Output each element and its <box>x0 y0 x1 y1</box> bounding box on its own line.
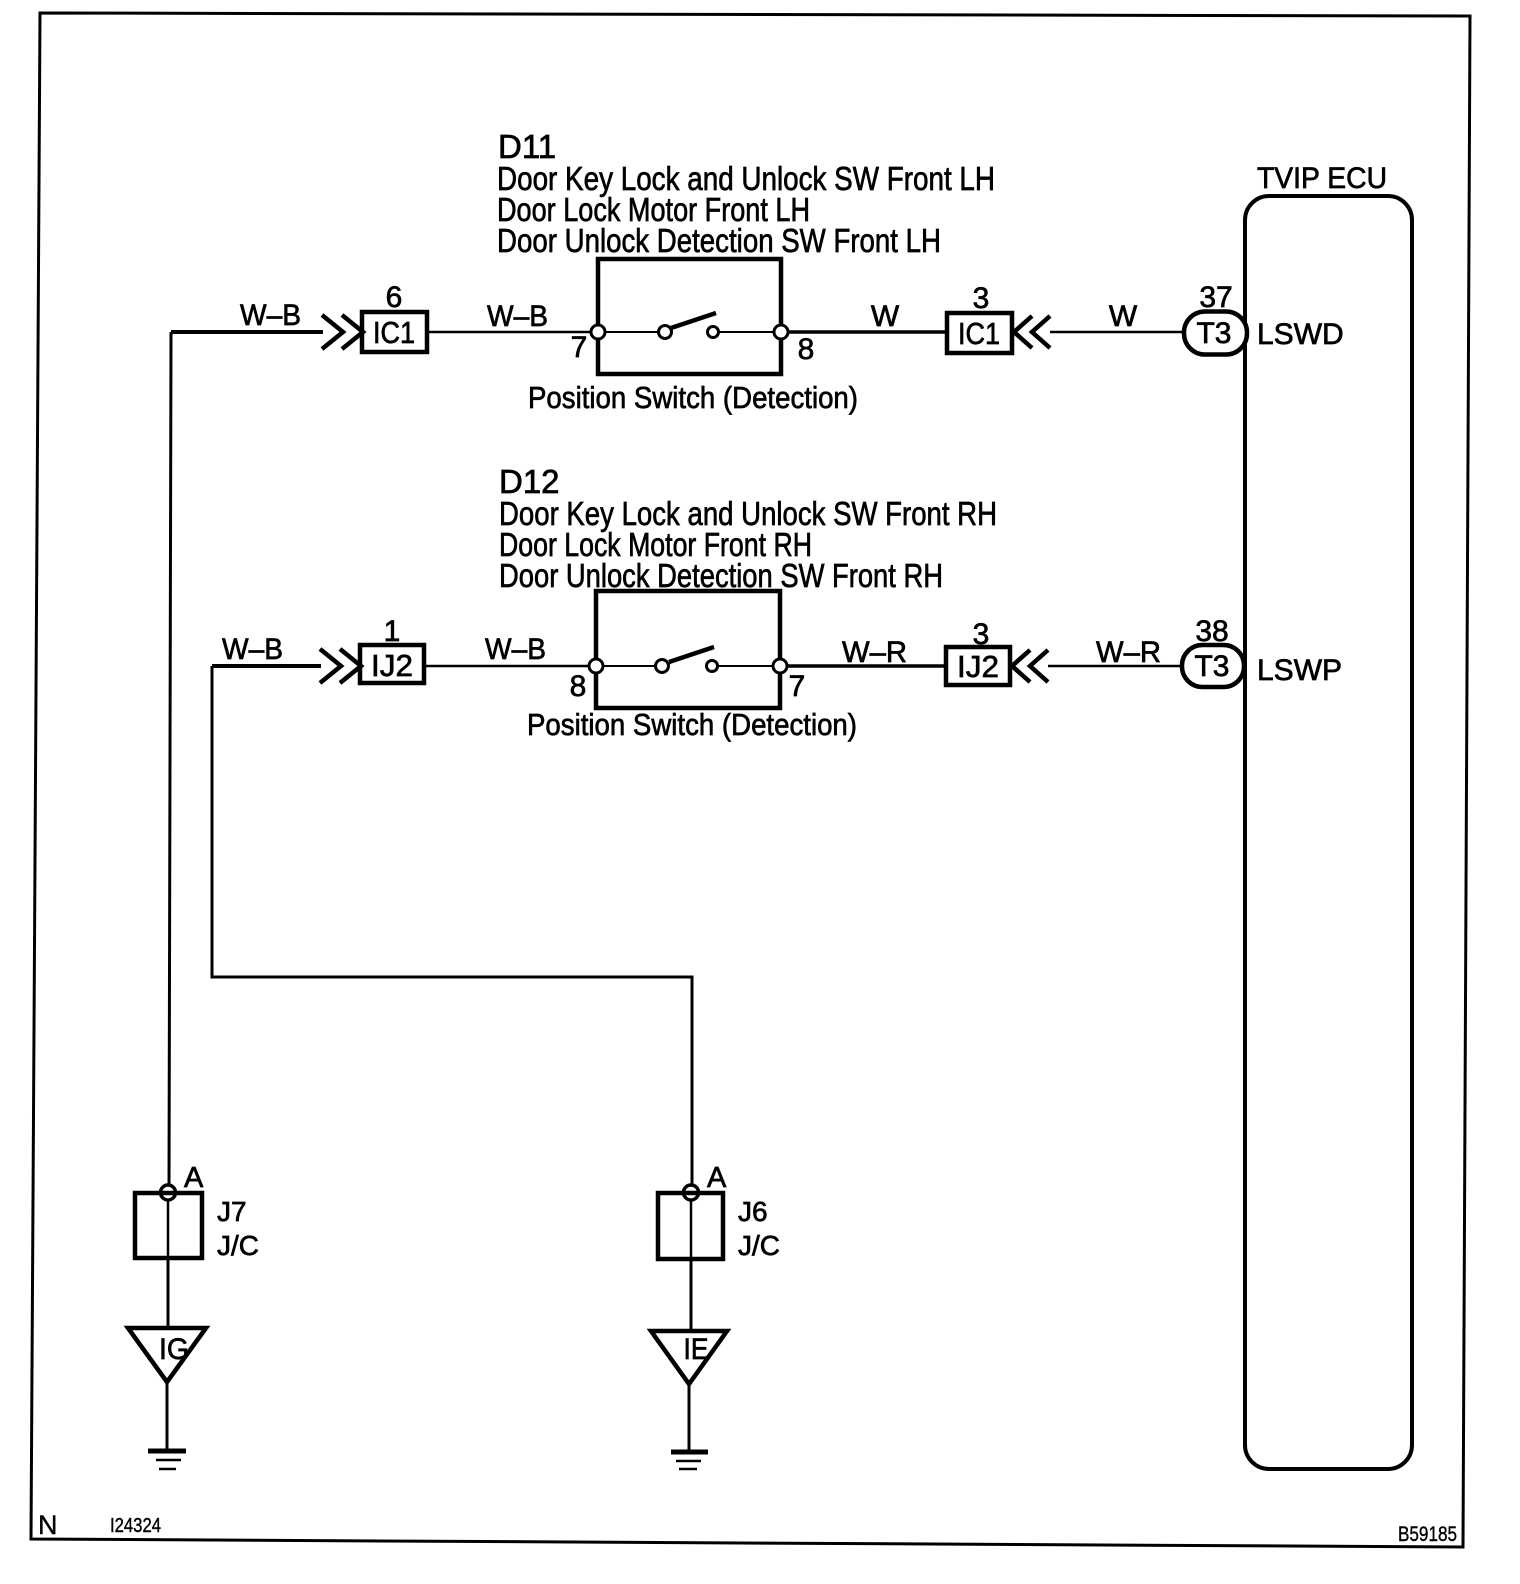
switch contact right D11 <box>708 327 719 338</box>
svg-text:8: 8 <box>570 670 587 703</box>
node A J7 <box>161 1185 176 1200</box>
svg-text:IC1: IC1 <box>958 316 1000 351</box>
connector IJ2 row 2 left <box>360 645 424 683</box>
wire W-R to T3 row 2 <box>1048 665 1184 668</box>
svg-text:IJ2: IJ2 <box>371 648 413 683</box>
ground symbol IE <box>671 1452 708 1469</box>
svg-text:T3: T3 <box>1194 650 1229 683</box>
svg-text:T3: T3 <box>1196 317 1231 350</box>
wire W-R row 2 <box>787 664 947 668</box>
svg-text:W: W <box>1109 300 1138 333</box>
wire W-B row 1 left <box>171 330 323 334</box>
svg-text:Door Unlock Detection SW Front: Door Unlock Detection SW Front RH <box>499 557 943 594</box>
svg-text:37: 37 <box>1199 281 1232 314</box>
svg-text:W–B: W–B <box>222 633 283 666</box>
switch D11 box <box>598 259 781 374</box>
label D12 block <box>499 463 997 594</box>
connector arrow into IC1 row 1 <box>322 315 363 349</box>
label J7 J/C <box>217 1196 259 1261</box>
connector arrow from T3 row 1 <box>1014 316 1050 348</box>
svg-text:W: W <box>871 300 900 333</box>
connector IJ2 row 2 right <box>946 647 1010 685</box>
svg-text:J7: J7 <box>217 1196 247 1227</box>
switch lever D11 <box>671 313 716 328</box>
svg-text:Position Switch (Detection): Position Switch (Detection) <box>528 380 858 415</box>
svg-text:I24324: I24324 <box>110 1515 161 1537</box>
connector IC1 row 1 right <box>947 313 1012 353</box>
ground triangle IG <box>128 1328 206 1382</box>
switch D12 box <box>596 591 780 708</box>
svg-text:Position Switch (Detection): Position Switch (Detection) <box>527 707 857 742</box>
svg-text:A: A <box>707 1162 727 1194</box>
wire IG to ground <box>166 1382 169 1450</box>
node A J6 <box>684 1185 699 1200</box>
svg-text:Door Unlock Detection SW Front: Door Unlock Detection SW Front LH <box>497 222 941 259</box>
label J6 J/C <box>738 1196 780 1261</box>
wire node8 to contact D12 <box>596 665 656 667</box>
wire W-B vertical to J7 <box>169 332 171 1186</box>
svg-text:LSWP: LSWP <box>1257 654 1342 687</box>
svg-text:7: 7 <box>789 670 806 703</box>
svg-text:J/C: J/C <box>217 1230 259 1261</box>
ECU box TVIP <box>1245 196 1412 1469</box>
wire contact to node8 D11 <box>719 331 781 333</box>
wire W-B vertical and horizontal to J6 <box>212 666 692 1186</box>
node pin 7 D12 <box>773 659 787 673</box>
svg-text:J/C: J/C <box>738 1230 780 1261</box>
switch lever D12 <box>669 647 714 662</box>
svg-text:W–B: W–B <box>240 299 301 332</box>
wire J7 to IG <box>167 1258 170 1328</box>
switch contact left D11 <box>659 326 672 339</box>
svg-text:W–R: W–R <box>1096 636 1161 669</box>
switch contact left D12 <box>656 660 669 673</box>
label D11 block <box>497 128 995 259</box>
connector arrow into IJ2 row 2 <box>320 649 361 683</box>
wire W row 1 <box>788 330 948 334</box>
node pin 8 D11 <box>774 325 788 339</box>
junction connector J7 <box>135 1193 202 1258</box>
wire J6 to IE <box>690 1259 693 1331</box>
svg-text:3: 3 <box>973 282 990 315</box>
svg-text:B59185: B59185 <box>1398 1523 1457 1546</box>
svg-text:J6: J6 <box>738 1196 768 1227</box>
connector arrow from T3 row 2 <box>1012 650 1048 682</box>
svg-text:IG: IG <box>159 1333 189 1366</box>
svg-text:W–B: W–B <box>487 300 548 333</box>
terminal T3 LSWD <box>1184 312 1247 355</box>
wire W-B row 2 middle <box>424 665 597 668</box>
switch contact right D12 <box>707 661 718 672</box>
wire node7 to contact D11 <box>598 331 659 333</box>
ground symbol IG <box>148 1451 186 1469</box>
svg-text:7: 7 <box>571 331 588 364</box>
svg-text:IJ2: IJ2 <box>957 649 999 684</box>
ground triangle IE <box>651 1331 727 1384</box>
svg-text:LSWD: LSWD <box>1257 318 1344 351</box>
svg-text:IC1: IC1 <box>373 315 415 350</box>
junction connector J6 <box>658 1193 723 1259</box>
svg-text:A: A <box>184 1162 204 1194</box>
svg-text:N: N <box>38 1510 58 1540</box>
svg-text:IE: IE <box>684 1333 709 1366</box>
wire IE to ground <box>688 1384 691 1450</box>
svg-text:W–R: W–R <box>842 636 907 669</box>
svg-text:TVIP ECU: TVIP ECU <box>1257 162 1387 195</box>
wire W-B row 1 middle <box>427 331 599 334</box>
node pin 7 D11 <box>591 325 605 339</box>
wire W-B row 2 left <box>212 664 321 668</box>
svg-text:W–B: W–B <box>485 633 546 666</box>
node pin 8 D12 <box>589 659 603 673</box>
wire W to T3 row 1 <box>1050 331 1185 334</box>
wire contact to node7 D12 <box>717 665 780 667</box>
terminal T3 LSWP <box>1182 645 1244 687</box>
svg-text:8: 8 <box>798 333 815 366</box>
connector IC1 row 1 left <box>362 312 427 352</box>
svg-text:6: 6 <box>386 281 403 314</box>
